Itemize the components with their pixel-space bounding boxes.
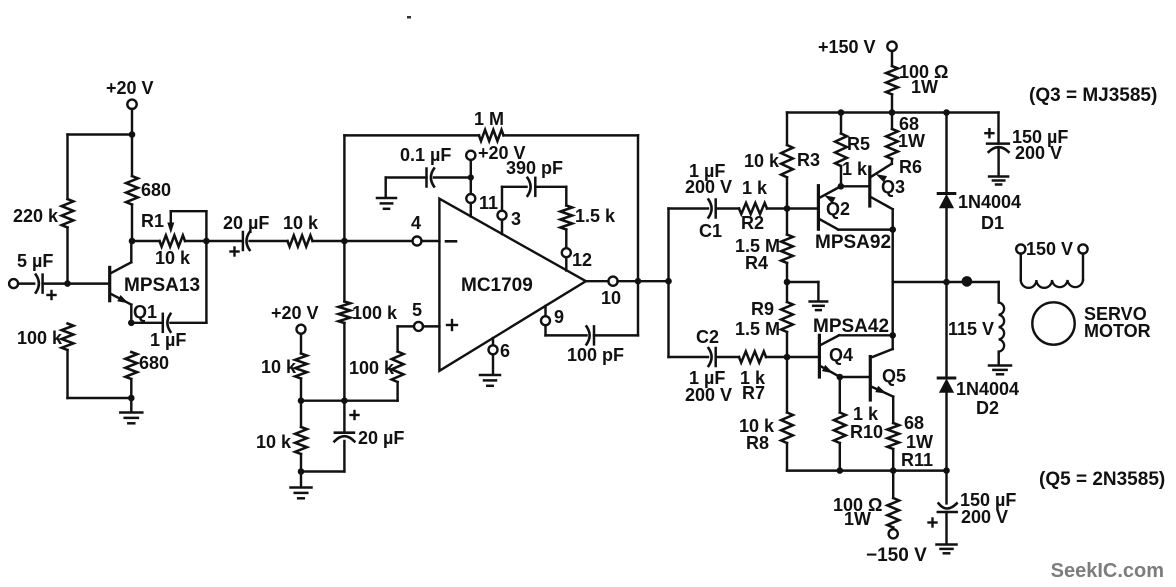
svg-text:20 µF: 20 µF	[223, 213, 269, 233]
node: Q4/Q5 collector junction	[889, 332, 896, 339]
power terminal -150V	[866, 529, 927, 566]
wire	[68, 397, 132, 399]
svg-text:1 k: 1 k	[842, 159, 868, 179]
transistor Q3 (MJ3585)	[870, 164, 905, 210]
wire	[423, 325, 439, 327]
servo motor	[1032, 302, 1150, 344]
resistor R3 10k	[744, 145, 820, 177]
wire	[945, 512, 947, 544]
node	[889, 109, 896, 116]
note (Q3 = MJ3585)	[1029, 85, 1157, 106]
wire	[637, 135, 639, 335]
wire	[18, 282, 34, 284]
node: Q4 emitter / Q5 base	[837, 374, 844, 381]
transistor Q2 MPSA92	[815, 186, 891, 253]
resistor R11 68 1W	[887, 413, 933, 470]
wire	[343, 323, 345, 401]
wire	[343, 241, 345, 302]
wire	[434, 176, 471, 178]
svg-text:MOTOR: MOTOR	[1084, 321, 1151, 341]
svg-text:100 k: 100 k	[349, 358, 395, 378]
pin 11	[466, 193, 498, 213]
svg-text:C2: C2	[696, 327, 719, 347]
svg-text:R6: R6	[899, 157, 922, 177]
wire	[396, 326, 398, 351]
wire	[786, 177, 788, 208]
wire	[396, 382, 398, 401]
diode D2 1N4004	[938, 282, 1019, 471]
ground	[989, 366, 1011, 375]
ground	[377, 198, 396, 209]
wire	[130, 398, 132, 412]
wire	[594, 334, 638, 336]
svg-text:10 k: 10 k	[261, 357, 297, 377]
wire	[786, 443, 788, 471]
node: Q1 emitter junction	[128, 320, 135, 327]
resistor R7 1k	[739, 351, 766, 403]
svg-text:100 pF: 100 pF	[567, 345, 624, 365]
wire	[786, 113, 788, 146]
pin 4	[411, 213, 422, 246]
wire	[945, 471, 947, 504]
svg-text:(Q3 = MJ3585): (Q3 = MJ3585)	[1029, 85, 1157, 106]
ground	[120, 413, 142, 424]
node: top-left rail junction	[129, 131, 136, 138]
op-amp U1 MC1709	[439, 199, 586, 371]
node: R1 wiper junction	[203, 238, 210, 245]
node: Q4 base node	[784, 354, 791, 361]
svg-text:R7: R7	[742, 383, 765, 403]
wire	[565, 187, 567, 206]
svg-text:1 M: 1 M	[474, 109, 504, 129]
wire	[891, 159, 894, 164]
svg-text:1W: 1W	[911, 77, 938, 97]
wire	[766, 356, 787, 358]
power terminal +20V (input stage)	[106, 78, 154, 109]
svg-text:12: 12	[572, 250, 592, 270]
wire	[786, 357, 788, 413]
wire	[840, 113, 842, 134]
svg-text:680: 680	[141, 180, 171, 200]
resistor R8 10k	[739, 413, 793, 454]
winding 115V	[948, 282, 1004, 365]
input terminal	[9, 279, 18, 288]
wire	[504, 134, 639, 136]
svg-text:R5: R5	[847, 134, 870, 154]
note (Q5 = 2N3585)	[1039, 469, 1165, 490]
svg-text:10 k: 10 k	[283, 213, 319, 233]
wire	[716, 356, 739, 358]
wire	[132, 240, 160, 242]
node	[943, 279, 950, 286]
wire	[470, 160, 472, 194]
svg-text:10 k: 10 k	[744, 151, 780, 171]
svg-text:Q2: Q2	[826, 199, 850, 219]
wire	[546, 334, 587, 336]
svg-text:R1: R1	[141, 211, 164, 231]
svg-text:200 V: 200 V	[1015, 143, 1062, 163]
node	[943, 109, 950, 116]
wire	[891, 94, 893, 112]
resistor 100k (feedback divider)	[339, 302, 399, 324]
diode D1 1N4004	[938, 113, 1021, 283]
resistor 220k	[13, 199, 73, 228]
node: divider ground junction	[298, 468, 305, 475]
svg-text:1.5 k: 1.5 k	[575, 206, 616, 226]
resistor 10k (divider upper)	[261, 354, 307, 379]
svg-text:68: 68	[904, 413, 924, 433]
wire	[767, 207, 787, 209]
pin 5	[412, 300, 423, 331]
wire	[492, 354, 494, 374]
wire	[839, 443, 841, 471]
resistor 100 ohm 1W (top)	[886, 62, 948, 97]
wire	[43, 282, 110, 284]
svg-text:MPSA42: MPSA42	[813, 316, 889, 337]
capacitor 390pF	[506, 158, 563, 196]
svg-text:5 µF: 5 µF	[17, 251, 53, 271]
wire: +150V rail	[787, 111, 999, 113]
wire	[300, 334, 302, 354]
svg-text:9: 9	[554, 307, 564, 327]
resistor 100k (input bias)	[17, 324, 73, 351]
watermark SeekIC.com	[1051, 560, 1164, 582]
capacitor 20uF (divider bypass)	[334, 411, 404, 448]
ground	[989, 177, 1008, 185]
winding 150V coil	[1021, 254, 1083, 288]
wire	[840, 376, 871, 378]
wire	[891, 209, 893, 282]
power terminal +20V (divider)	[271, 303, 319, 334]
resistor R4 1.5M	[735, 235, 793, 274]
node: 100k/20uF junction	[341, 397, 348, 404]
wire	[250, 240, 288, 242]
node	[838, 109, 845, 116]
node	[943, 467, 950, 474]
capacitor 20uF (coupling)	[223, 213, 269, 256]
svg-text:5: 5	[412, 300, 422, 320]
wire	[669, 207, 709, 209]
wire	[171, 322, 207, 324]
speck	[407, 16, 411, 19]
capacitor 150uF 200V (top)	[985, 127, 1068, 163]
wire	[130, 379, 132, 398]
wire	[502, 186, 527, 188]
svg-text:1W: 1W	[844, 509, 871, 529]
resistor R10 1k	[834, 404, 883, 443]
wire	[840, 166, 842, 186]
svg-text:1 µF: 1 µF	[150, 330, 186, 350]
svg-text:SeekIC.com: SeekIC.com	[1051, 560, 1164, 582]
wire	[130, 241, 132, 262]
wire	[422, 240, 440, 242]
node: C1/C2 tee	[665, 278, 672, 285]
node: emitter ground junction	[128, 395, 135, 402]
wire	[586, 280, 609, 282]
wire	[300, 401, 302, 427]
wire	[817, 282, 819, 301]
svg-text:MC1709: MC1709	[461, 275, 533, 296]
svg-text:10 k: 10 k	[256, 432, 292, 452]
capacitor 150uF 200V (bottom)	[929, 490, 1017, 527]
svg-text:1 k: 1 k	[853, 404, 879, 424]
svg-text:−150 V: −150 V	[866, 545, 927, 566]
wire	[786, 282, 788, 302]
svg-text:100 k: 100 k	[352, 303, 398, 323]
pin 9	[541, 307, 564, 327]
wire	[891, 113, 893, 129]
wire	[185, 240, 206, 242]
wire	[892, 449, 894, 471]
resistor 680 (collector load)	[126, 176, 171, 205]
wire	[786, 332, 788, 357]
svg-text:10 k: 10 k	[155, 248, 191, 268]
pin 10	[601, 277, 621, 308]
wire	[667, 209, 669, 358]
node: motor terminal (heavy dot)	[962, 276, 973, 287]
wire	[66, 228, 68, 284]
wire	[839, 377, 841, 413]
svg-text:1.5 M: 1.5 M	[735, 319, 780, 339]
wire	[501, 187, 503, 211]
wire	[344, 134, 479, 136]
svg-text:0.1 µF: 0.1 µF	[400, 145, 451, 165]
capacitor 5uF (input)	[17, 251, 56, 299]
capacitor C2 1uF 200V	[685, 327, 732, 405]
wire	[66, 350, 68, 398]
resistor R2 1k	[739, 178, 768, 233]
svg-text:MPSA13: MPSA13	[124, 275, 200, 296]
wire	[786, 209, 788, 235]
wire	[997, 113, 999, 144]
svg-text:R3: R3	[797, 150, 820, 170]
wire	[891, 282, 893, 335]
resistor R6 68 1W	[886, 114, 925, 177]
svg-text:20 µF: 20 µF	[358, 428, 404, 448]
wire	[839, 334, 893, 336]
transistor Q5 (2N3585)	[870, 349, 906, 400]
svg-text:11: 11	[479, 193, 498, 213]
resistor R9 1.5M	[735, 299, 793, 339]
wire	[892, 471, 894, 498]
wire	[343, 401, 345, 432]
capacitor 1uF (Q1 bypass)	[150, 314, 186, 350]
wire	[343, 135, 345, 241]
potentiometer R1 10k	[141, 211, 206, 268]
wire	[300, 379, 302, 401]
svg-text:200 V: 200 V	[961, 507, 1008, 527]
wire	[398, 325, 415, 327]
resistor R5 1k	[835, 134, 870, 180]
node: Q1 collector junction	[129, 238, 136, 245]
svg-text:150 V: 150 V	[1026, 239, 1073, 259]
svg-text:200 V: 200 V	[685, 177, 732, 197]
winding 150V terminal B	[1026, 239, 1088, 259]
ground	[291, 488, 312, 499]
resistor 100k (pin5 series)	[349, 352, 404, 383]
resistor 10k (series input)	[283, 213, 319, 247]
wire	[841, 185, 870, 187]
svg-text:200 V: 200 V	[685, 385, 732, 405]
node: R4/R9 ground node	[784, 279, 791, 286]
wire	[300, 454, 302, 472]
svg-text:R11: R11	[901, 450, 933, 470]
op-amp minus sign	[446, 240, 456, 243]
wire	[131, 205, 133, 242]
svg-text:115 V: 115 V	[948, 319, 994, 339]
wire	[300, 472, 302, 488]
svg-text:1 k: 1 k	[742, 178, 768, 198]
wire	[343, 441, 345, 472]
ground	[937, 545, 957, 554]
wire	[384, 178, 386, 198]
wire	[386, 176, 427, 178]
resistor 10k (divider lower)	[256, 427, 307, 454]
wire	[130, 305, 132, 323]
wire	[891, 51, 893, 66]
wire: bottom rail	[787, 469, 947, 471]
wire	[131, 135, 133, 177]
wire	[997, 150, 999, 176]
capacitor 0.1uF	[400, 145, 451, 187]
transistor Q4 MPSA42	[813, 316, 889, 377]
ground	[480, 375, 500, 386]
svg-text:C1: C1	[699, 221, 722, 241]
power terminal +150V	[818, 37, 897, 57]
wire	[206, 240, 242, 242]
svg-text:1N4004: 1N4004	[958, 192, 1021, 212]
wire	[66, 135, 68, 200]
wire	[131, 109, 133, 135]
wire	[891, 335, 893, 349]
resistor 100 ohm 1W (bottom)	[833, 495, 899, 529]
svg-text:3: 3	[511, 209, 521, 229]
svg-text:+20 V: +20 V	[106, 78, 154, 98]
pin 3	[498, 209, 522, 229]
node: Q2/Q3 collector junction	[889, 226, 896, 233]
svg-text:1N4004: 1N4004	[956, 379, 1019, 399]
op-amp plus sign	[447, 320, 457, 330]
svg-text:390 pF: 390 pF	[506, 158, 563, 178]
svg-text:680: 680	[139, 353, 169, 373]
svg-text:1W: 1W	[906, 432, 933, 452]
node: divider mid	[298, 397, 305, 404]
wire	[786, 263, 788, 282]
wire	[892, 397, 894, 423]
pin 12	[562, 248, 592, 270]
node: 0.1uF junction	[468, 174, 474, 180]
wire	[205, 211, 207, 323]
resistor 1.5k	[560, 206, 616, 230]
wire	[68, 133, 133, 135]
wire	[892, 528, 894, 530]
wire	[787, 207, 818, 209]
svg-text:Q3: Q3	[881, 177, 905, 197]
node: input node	[64, 280, 71, 287]
wire	[544, 325, 546, 335]
svg-text:D2: D2	[976, 398, 999, 418]
svg-text:1W: 1W	[898, 131, 925, 151]
node: feedback/output junction	[635, 278, 642, 285]
wire	[301, 470, 344, 472]
capacitor 100pF	[567, 326, 624, 365]
wire	[470, 203, 472, 216]
wire	[618, 280, 669, 282]
node: Q2 emitter / R5	[838, 183, 845, 190]
svg-text:(Q5 = 2N3585): (Q5 = 2N3585)	[1039, 469, 1165, 490]
wire	[565, 257, 567, 270]
wire	[301, 399, 398, 401]
svg-text:+20 V: +20 V	[271, 303, 319, 323]
wire	[544, 306, 546, 316]
wire	[787, 356, 819, 358]
svg-text:10: 10	[601, 288, 621, 308]
wire	[787, 281, 818, 283]
node	[890, 467, 897, 474]
ground	[810, 302, 828, 311]
svg-text:R8: R8	[746, 433, 769, 453]
node: Q2 base node	[784, 205, 791, 212]
wire	[535, 186, 566, 188]
power terminal +20V (op-amp)	[466, 143, 525, 163]
wire: motor rail	[893, 281, 999, 283]
wire	[501, 220, 503, 234]
svg-text:R9: R9	[751, 299, 774, 319]
wire	[492, 338, 494, 345]
svg-text:Q5: Q5	[882, 366, 906, 386]
svg-text:220 k: 220 k	[13, 206, 59, 226]
node: output junction	[341, 238, 348, 245]
wire	[313, 240, 413, 242]
pin 6	[489, 341, 511, 361]
wire	[669, 356, 709, 358]
svg-text:R4: R4	[745, 253, 768, 273]
svg-text:MPSA92: MPSA92	[815, 232, 891, 253]
svg-text:Q4: Q4	[829, 345, 853, 365]
svg-text:100 k: 100 k	[17, 328, 63, 348]
resistor 1M (feedback)	[474, 109, 504, 141]
svg-text:4: 4	[411, 213, 421, 233]
wire	[716, 207, 739, 209]
transistor Q1 MPSA13	[110, 262, 200, 322]
svg-text:R2: R2	[741, 213, 764, 233]
wire	[838, 228, 892, 230]
wire	[565, 230, 567, 249]
node	[837, 467, 844, 474]
capacitor C1 1uF 200V	[685, 161, 732, 241]
svg-text:+150 V: +150 V	[818, 37, 876, 57]
winding 150V terminal A	[1016, 244, 1025, 253]
wire	[131, 322, 161, 324]
svg-text:6: 6	[500, 341, 510, 361]
svg-text:Q1: Q1	[133, 302, 157, 322]
svg-text:D1: D1	[981, 213, 1004, 233]
resistor 680 (emitter)	[125, 352, 169, 379]
svg-text:R10: R10	[850, 422, 883, 442]
